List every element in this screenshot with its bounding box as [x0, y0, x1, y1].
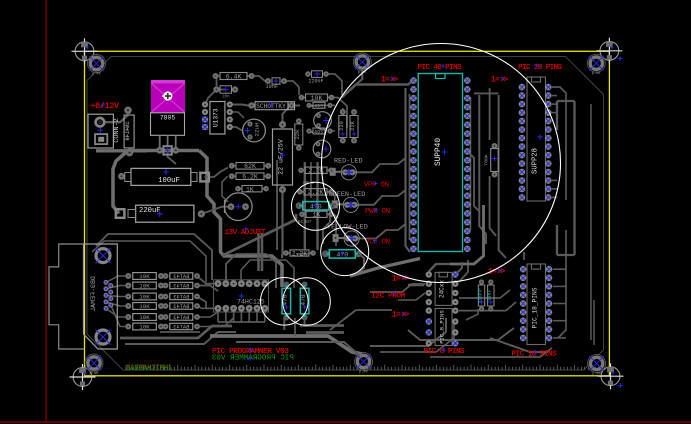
resistor 10K (top)	[299, 94, 335, 102]
wire segment W17	[284, 81, 299, 95]
svg-text:220nF: 220nF	[309, 79, 324, 85]
wire segment W86	[264, 311, 266, 322]
wire segment W32	[323, 206, 330, 244]
wire segment W29	[304, 162, 306, 250]
label BC307 (lower)	[298, 219, 312, 225]
wire segment W83	[240, 311, 242, 322]
svg-text:10K: 10K	[139, 273, 150, 280]
wire segment W43	[409, 94, 411, 240]
wire segment W122	[161, 296, 166, 298]
diode D3 IN4937	[306, 102, 332, 109]
wire segment W90	[370, 318, 446, 346]
label pin1 arrow (PIC 18)	[488, 269, 506, 277]
wire segment W100	[553, 303, 566, 305]
svg-text:U1373: U1373	[212, 108, 219, 127]
wire segment W125	[161, 326, 166, 328]
wire segment W25	[326, 74, 342, 95]
wire segment W24	[276, 160, 278, 250]
wire segment W114	[106, 276, 128, 282]
label RED-LED	[334, 157, 363, 165]
voltage regulator U2 7805 (TO-220 pad)	[151, 80, 185, 113]
wire segment W53	[467, 151, 480, 212]
wire segment W84	[248, 311, 250, 322]
label pin1 arrow (SUPP28)	[491, 77, 509, 85]
svg-text:PIC 28 PINS: PIC 28 PINS	[518, 64, 563, 72]
svg-text:▸4937: ▸4937	[311, 129, 326, 135]
svg-text:1=: 1=	[392, 312, 401, 320]
svg-text:470: 470	[300, 294, 307, 305]
wire segment W1	[104, 115, 128, 122]
wire segment W26	[330, 98, 347, 129]
label VCC ON	[365, 239, 390, 247]
svg-text:p.##: p.##	[92, 73, 101, 77]
wire segment W69	[125, 332, 236, 344]
LED D7 yellow	[333, 231, 360, 246]
capacitor 100nF vertical	[478, 279, 485, 311]
wire segment W9	[261, 233, 264, 271]
svg-text:13V ADJUST: 13V ADJUST	[225, 229, 266, 237]
svg-text:6.4K: 6.4K	[226, 73, 242, 80]
wire segment W61	[573, 101, 575, 255]
resistor 22K vertical	[294, 118, 303, 151]
wire segment W23	[281, 190, 284, 259]
wire segment W68	[120, 326, 232, 338]
label I2C PROM	[371, 291, 405, 300]
board outline (yellow)	[85, 51, 610, 376]
svg-text:BAT43: BAT43	[173, 295, 189, 301]
svg-text:▸4937: ▸4937	[311, 104, 326, 110]
resistor 62K	[229, 163, 271, 171]
socket PIC_18_PINS	[520, 264, 553, 345]
svg-text:RED-LED: RED-LED	[334, 157, 363, 165]
wire segment W99	[553, 285, 566, 287]
wire segment W58	[552, 188, 557, 190]
wire segment W115	[106, 286, 128, 289]
wire segment W71	[96, 234, 212, 280]
wire segment W57	[552, 179, 557, 181]
diode array BAT43 x6 (mirrored labels)	[163, 273, 200, 331]
label 1K	[246, 186, 254, 193]
mounting hole bottom-middle	[355, 353, 373, 375]
wire segment W85	[256, 311, 258, 322]
svg-text:PIC_18_PINS: PIC_18_PINS	[532, 287, 539, 328]
label PWR ON	[365, 208, 390, 216]
label +8/12V	[91, 101, 120, 111]
wire segment W4	[128, 149, 199, 153]
svg-text:p.##: p.##	[592, 72, 601, 76]
wire segment W22	[283, 106, 291, 125]
svg-text:p.##: p.##	[90, 372, 99, 376]
wire segment W14	[205, 90, 226, 105]
IC U1 (U1373) 8-pin	[202, 101, 233, 134]
wire segment W116	[106, 295, 128, 296]
wire segment W121	[161, 285, 166, 287]
label PIC 8 PINS	[424, 348, 466, 356]
wire segment W67	[590, 104, 592, 340]
resistor 220 vertical (left)	[339, 109, 347, 144]
wire segment W45	[350, 259, 420, 277]
wire segment W60	[557, 100, 575, 102]
wire segment W128	[197, 297, 218, 309]
svg-text:BAT43: BAT43	[173, 284, 189, 290]
connector J1 DB9-FEMAL body	[84, 244, 118, 349]
highlight circle (main ICs)	[322, 44, 561, 283]
mounting hole top-right	[587, 54, 605, 76]
highlight circle (470 upper)	[292, 182, 340, 230]
wire segment W80	[217, 311, 219, 322]
wire segment W108	[408, 284, 424, 287]
wire segment W41	[341, 81, 413, 99]
svg-text:1N4148: 1N4148	[125, 121, 131, 140]
wire segment W96	[459, 260, 468, 282]
wire segment W2	[96, 149, 129, 152]
label pin1 arrow (PIC 8)	[392, 312, 410, 320]
label PIC 28 PINS	[518, 64, 563, 73]
wire segment W49	[489, 88, 491, 140]
svg-text:10n: 10n	[222, 96, 230, 100]
resistor array 10K x6	[125, 273, 164, 331]
wire segment W55	[552, 103, 557, 105]
svg-text:PIC 40 PINS: PIC 40 PINS	[418, 64, 463, 72]
wire segment W126	[197, 276, 218, 284]
svg-text:DB9-FEMAL: DB9-FEMAL	[90, 276, 97, 312]
wire segment W10	[205, 168, 229, 178]
svg-text:1K: 1K	[246, 186, 254, 193]
wire segment W5	[199, 151, 282, 288]
resistor 22K vertical (right)	[350, 109, 358, 144]
IC U3 74HC125	[214, 280, 269, 312]
LED D6 green	[332, 197, 359, 212]
wire segment W33	[335, 216, 337, 246]
wire segment W59	[552, 196, 557, 198]
wire segment W91	[380, 324, 454, 352]
wire segment W104	[490, 338, 548, 352]
socket PIC_8_PINS	[426, 307, 459, 346]
wire segment W124	[161, 316, 166, 318]
label BC307 (upper)	[303, 180, 314, 186]
svg-text:VPP ON: VPP ON	[364, 182, 389, 190]
wire segment W105	[466, 309, 478, 320]
diode D1 1N4148 vertical	[124, 107, 134, 157]
capacitor 100nF (below 6.4K)	[213, 86, 238, 100]
svg-text:10K: 10K	[139, 294, 150, 301]
wire segment W123	[161, 305, 166, 307]
label YELLOW-LED	[327, 223, 368, 231]
resistor 2.2K (lower)	[283, 250, 316, 257]
svg-text:2.2K: 2.2K	[292, 250, 308, 257]
highlight circle (470 lower)	[321, 228, 369, 276]
svg-text:1=: 1=	[381, 77, 390, 85]
wire segment W34	[329, 192, 335, 200]
svg-text:+8/12V: +8/12V	[91, 101, 120, 111]
wire segment W79	[283, 318, 285, 330]
wire segment W44	[356, 70, 362, 85]
capacitor C4 22uF/25V electrolytic	[273, 121, 293, 193]
resistor R 470 smd (lower)	[322, 250, 362, 259]
svg-text:BAT43: BAT43	[173, 315, 189, 321]
svg-text:6.2K: 6.2K	[242, 174, 258, 181]
svg-text:22K: 22K	[294, 129, 301, 140]
mounting hole bottom-left	[85, 354, 103, 376]
capacitor C2 100uF	[118, 168, 209, 185]
socket SUPP28 (PIC 28 pins)	[519, 77, 552, 201]
capacitor 10nF	[265, 78, 287, 90]
wire segment W102	[553, 337, 566, 339]
highlight circle (470 vertical left)	[261, 278, 309, 326]
wire segment W36	[296, 253, 309, 255]
resistor 6.4K	[213, 73, 255, 81]
svg-text:22uH: 22uH	[254, 122, 261, 136]
label pin1 arrow (24Cxx)	[392, 276, 410, 284]
svg-text:7805: 7805	[160, 115, 176, 122]
wire segment W6	[113, 151, 128, 214]
svg-text:JHPICHARRAS: JHPICHARRAS	[126, 365, 172, 373]
wire segment W12	[222, 176, 228, 202]
resistor R 470 vertical (left)	[282, 282, 291, 321]
wire segment W97	[523, 252, 525, 260]
wire segment W46	[342, 108, 344, 112]
wire segment W73	[226, 254, 276, 288]
wire segment W101	[553, 320, 566, 322]
wire segment W70	[160, 331, 200, 333]
wire segment W89	[304, 318, 306, 325]
svg-text:1K: 1K	[313, 212, 321, 219]
wire segment W87	[218, 321, 265, 323]
inductor L1 22uH	[243, 119, 266, 142]
svg-text:10K: 10K	[139, 303, 150, 310]
mounting hole bottom-right	[588, 354, 606, 376]
wire segment W94	[459, 302, 516, 311]
svg-text:22K: 22K	[350, 120, 356, 130]
svg-text:1=: 1=	[491, 77, 500, 85]
wire - vertical red guide line	[45, 0, 47, 423]
svg-text:10K: 10K	[139, 283, 150, 290]
wire segment W119	[111, 305, 129, 326]
wire segment W72	[92, 241, 206, 282]
svg-text:10K: 10K	[311, 95, 323, 102]
diode D2 SCHOTTKY	[248, 102, 294, 111]
fiducial crosshair top-right	[596, 38, 622, 64]
node marker bottom-right outside	[618, 383, 623, 388]
diode D4 IN4937	[306, 128, 332, 135]
wire segment W78	[306, 331, 344, 334]
label 13V ADJUST	[225, 229, 266, 237]
svg-text:BAT43: BAT43	[173, 274, 189, 280]
mounting hole top-left	[88, 55, 106, 77]
wire segment W64	[556, 225, 558, 255]
wire segment W42	[406, 88, 411, 252]
wire - horizontal red guide line	[0, 421, 691, 423]
wire segment W52	[470, 97, 472, 230]
label PIC PROGRAMNER V03 (red)	[212, 227, 289, 356]
svg-text:4007: 4007	[483, 154, 489, 166]
wire segment W50	[490, 176, 496, 236]
wire segment W93	[430, 348, 552, 357]
IC 24Cxx socket	[426, 271, 459, 305]
wire segment W129	[197, 306, 206, 308]
wire segment W56	[552, 112, 557, 114]
wire segment W3	[129, 149, 148, 152]
regulator U2 body outline	[151, 113, 185, 147]
wire segment W127	[197, 286, 218, 292]
highlight circle (470 vertical right)	[283, 278, 331, 326]
svg-text:10K: 10K	[139, 314, 150, 321]
wire segment W13	[168, 151, 176, 165]
transistor Q2	[313, 140, 331, 158]
svg-text:CONN-2: CONN-2	[113, 118, 121, 142]
label PIC PROGRAMMER V03 (green mirrored)	[211, 354, 293, 362]
wire segment W120	[161, 275, 166, 277]
wire segment W51	[499, 95, 506, 258]
mounting hole top-middle	[353, 53, 371, 75]
regulator U2 pads	[156, 146, 179, 154]
wire segment W30	[316, 162, 318, 250]
wire segment W75	[210, 336, 362, 354]
fiducial crosshair bottom-left	[70, 364, 96, 390]
label PIC 18 PINS	[512, 350, 558, 359]
socket SUPP40 (PIC 40 pins)	[410, 74, 470, 253]
wire segment W28	[330, 130, 335, 132]
wire segment W27	[330, 104, 335, 106]
wire segment W76	[236, 342, 360, 356]
wire segment W38	[352, 158, 405, 172]
wire segment W107	[429, 264, 450, 272]
capacitor 10nF vertical	[487, 279, 494, 311]
wire segment W117	[106, 302, 128, 306]
wire segment W113	[330, 310, 356, 330]
fiducial crosshair top-left	[72, 38, 98, 64]
wire segment W66	[558, 230, 566, 338]
svg-text:BAT43: BAT43	[173, 304, 189, 310]
wire segment W47	[474, 92, 499, 94]
svg-text:p.##: p.##	[359, 371, 368, 375]
svg-text:I2C PROM: I2C PROM	[371, 293, 405, 301]
transistor Q1	[314, 112, 332, 130]
wire segment W74	[241, 260, 294, 288]
resistor R 470 smd (upper)	[296, 202, 336, 211]
LED D5 red	[330, 165, 357, 180]
capacitor 220nF	[305, 71, 329, 85]
svg-text:10nF: 10nF	[266, 84, 278, 90]
label VPP ON	[364, 182, 389, 190]
wire segment W16	[251, 76, 269, 81]
node marker top-right outside	[618, 56, 623, 61]
resistor 1K (left)	[235, 186, 269, 192]
wire segment W8	[257, 233, 260, 271]
wire segment W98	[553, 268, 566, 270]
svg-text:10nF: 10nF	[487, 289, 493, 301]
wire segment W130	[197, 312, 218, 317]
resistor 6.2K	[229, 173, 271, 181]
wire segment W40	[355, 224, 405, 239]
label GREEN-LED	[329, 191, 366, 199]
wire segment W88	[294, 318, 296, 336]
wire segment W35	[327, 214, 338, 218]
wire segment W21	[230, 112, 244, 118]
wire segment W37	[356, 254, 364, 274]
wire segment W65	[552, 87, 566, 200]
wire segment W131	[197, 318, 234, 327]
svg-text:PIC_8_PINS: PIC_8_PINS	[439, 310, 446, 344]
board inner silkscreen outline	[87, 57, 604, 371]
resistor 1K (LED)	[299, 211, 334, 218]
wire segment W112	[356, 309, 392, 311]
diode D8 4007 vertical	[483, 143, 498, 178]
wire segment W18	[230, 105, 252, 106]
wire segment W95	[459, 290, 510, 298]
wire segment W118	[106, 308, 128, 317]
label PIC 40 PINS	[418, 64, 463, 72]
wire segment W54	[552, 95, 557, 97]
wire segment W15	[216, 76, 218, 86]
svg-text:p.##: p.##	[592, 372, 601, 376]
svg-text:2.2K: 2.2K	[308, 189, 324, 196]
svg-text:BAT43: BAT43	[173, 325, 189, 331]
capacitor C3 220uF	[116, 205, 205, 222]
svg-text:22 uF/25V: 22 uF/25V	[278, 139, 285, 175]
wire segment W103	[593, 300, 595, 345]
fiducial crosshair bottom-right	[598, 363, 624, 389]
svg-text:PIC PROGRAMMER V03: PIC PROGRAMMER V03	[211, 354, 293, 362]
wire segment W106	[450, 205, 484, 264]
wire segment W11	[202, 207, 231, 214]
resistor 2.2K (VPP LED)	[298, 167, 334, 175]
label pin1 arrow (SUPP40)	[381, 77, 399, 85]
svg-text:10K: 10K	[139, 324, 150, 331]
wire segment W92	[408, 328, 514, 340]
wire segment W7	[223, 214, 297, 256]
label JHPICHARRAS (green mirrored)	[126, 364, 173, 373]
wire segment W48	[479, 95, 486, 244]
wire segment W62	[557, 254, 575, 256]
wire segment W111	[398, 293, 425, 300]
connector J1 DB9-FEMAL shell	[49, 244, 85, 349]
svg-text:100uF: 100uF	[158, 177, 180, 185]
svg-text:1=: 1=	[392, 276, 401, 284]
wire segment W77	[300, 324, 344, 327]
svg-text:SUPP28: SUPP28	[532, 148, 540, 174]
svg-text:220: 220	[339, 121, 345, 131]
wire segment W20	[230, 127, 242, 131]
wire segment W19	[292, 105, 301, 107]
capacitor C5 13V adjust electrolytic	[225, 193, 253, 221]
wire segment W39	[354, 190, 405, 205]
wire segment W31	[310, 162, 312, 198]
resistor R 470 vertical (right)	[300, 282, 309, 321]
wire segment W63	[556, 101, 558, 130]
connector CONN2 power input	[88, 114, 121, 148]
wire segment W82	[233, 311, 235, 322]
resistor 2.2K (mid)	[297, 189, 334, 197]
wire segment W109	[455, 262, 462, 275]
svg-text:VCC ON: VCC ON	[365, 239, 390, 247]
wire segment W110	[370, 284, 425, 292]
svg-text:62K: 62K	[244, 163, 256, 170]
svg-text:100nF: 100nF	[478, 288, 484, 303]
svg-text:PWR ON: PWR ON	[365, 208, 390, 216]
wire segment W81	[225, 311, 227, 322]
